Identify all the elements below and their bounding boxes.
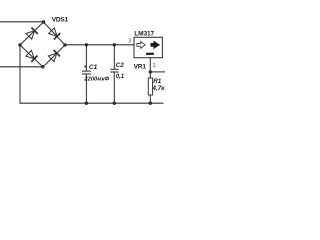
wire AC input 1 (top left) bbox=[0, 21, 44, 23]
junction node dots bbox=[18, 20, 152, 105]
wire C2 branch top bbox=[113, 45, 115, 69]
VR1 input open arrow (pin 3) bbox=[137, 41, 145, 48]
wire R1 bottom to rail bbox=[149, 95, 151, 103]
node bridge bottom bbox=[41, 65, 44, 68]
diode VDS1-B (top-right of bridge) bbox=[48, 27, 60, 39]
wire bridge side bottom-left bbox=[20, 45, 43, 67]
wire C1 branch bottom bbox=[85, 74, 87, 103]
diode VDS1-A (top-left of bridge) bbox=[26, 27, 38, 39]
diode VDS1-C (bottom-left of bridge) bbox=[25, 50, 37, 62]
wire bridge side top-right bbox=[44, 22, 66, 45]
node C1 top bbox=[85, 43, 88, 46]
svg-text:2200мкФ: 2200мкФ bbox=[83, 76, 109, 82]
svg-text:4,7к: 4,7к bbox=[151, 85, 165, 92]
svg-text:C1: C1 bbox=[89, 64, 98, 71]
node R1 bottom bbox=[149, 102, 152, 105]
svg-text:1: 1 bbox=[152, 63, 155, 69]
svg-text:LM317: LM317 bbox=[134, 31, 154, 38]
node bridge right bbox=[63, 43, 66, 46]
wire bridge side bottom-right bbox=[43, 45, 65, 67]
svg-text:0,1: 0,1 bbox=[116, 74, 125, 80]
svg-text:VR1: VR1 bbox=[134, 63, 147, 70]
capacitor C2 plates (0.1uF) bbox=[110, 69, 118, 72]
wire bridge side top-left bbox=[20, 22, 44, 45]
svg-text:C2: C2 bbox=[116, 62, 124, 69]
node C2 top bbox=[113, 43, 116, 46]
wire ADJ pin down from regulator bbox=[149, 56, 151, 79]
diode VDS1-D (bottom-right of bridge) bbox=[48, 50, 60, 62]
node bridge top bbox=[42, 20, 45, 23]
node C1 bottom bbox=[85, 102, 88, 105]
svg-text:+: + bbox=[84, 64, 87, 70]
resistor R1 4.7k bbox=[148, 78, 152, 95]
node ADJ junction bbox=[149, 70, 152, 73]
wire ADJ node to right edge bbox=[150, 71, 165, 73]
wire positive rail (right node to regulator input) bbox=[65, 44, 134, 46]
capacitor C1 plates (electrolytic 2200uF) bbox=[82, 71, 91, 74]
VR1 output filled arrow bbox=[151, 41, 159, 48]
wire C2 branch bottom bbox=[113, 72, 115, 103]
VR1 ADJ bar (pin 1) bbox=[146, 53, 154, 55]
svg-text:VDS1: VDS1 bbox=[52, 16, 69, 23]
voltage regulator VR1 LM317 box bbox=[134, 37, 162, 57]
wire C1 branch top bbox=[85, 45, 87, 71]
node C2 bottom bbox=[113, 102, 116, 105]
wire negative rail (left node down, then bottom rail) bbox=[20, 45, 164, 103]
svg-text:3: 3 bbox=[128, 38, 131, 44]
wire AC input 2 (lower left) bbox=[0, 66, 43, 68]
node bridge left bbox=[18, 43, 21, 46]
